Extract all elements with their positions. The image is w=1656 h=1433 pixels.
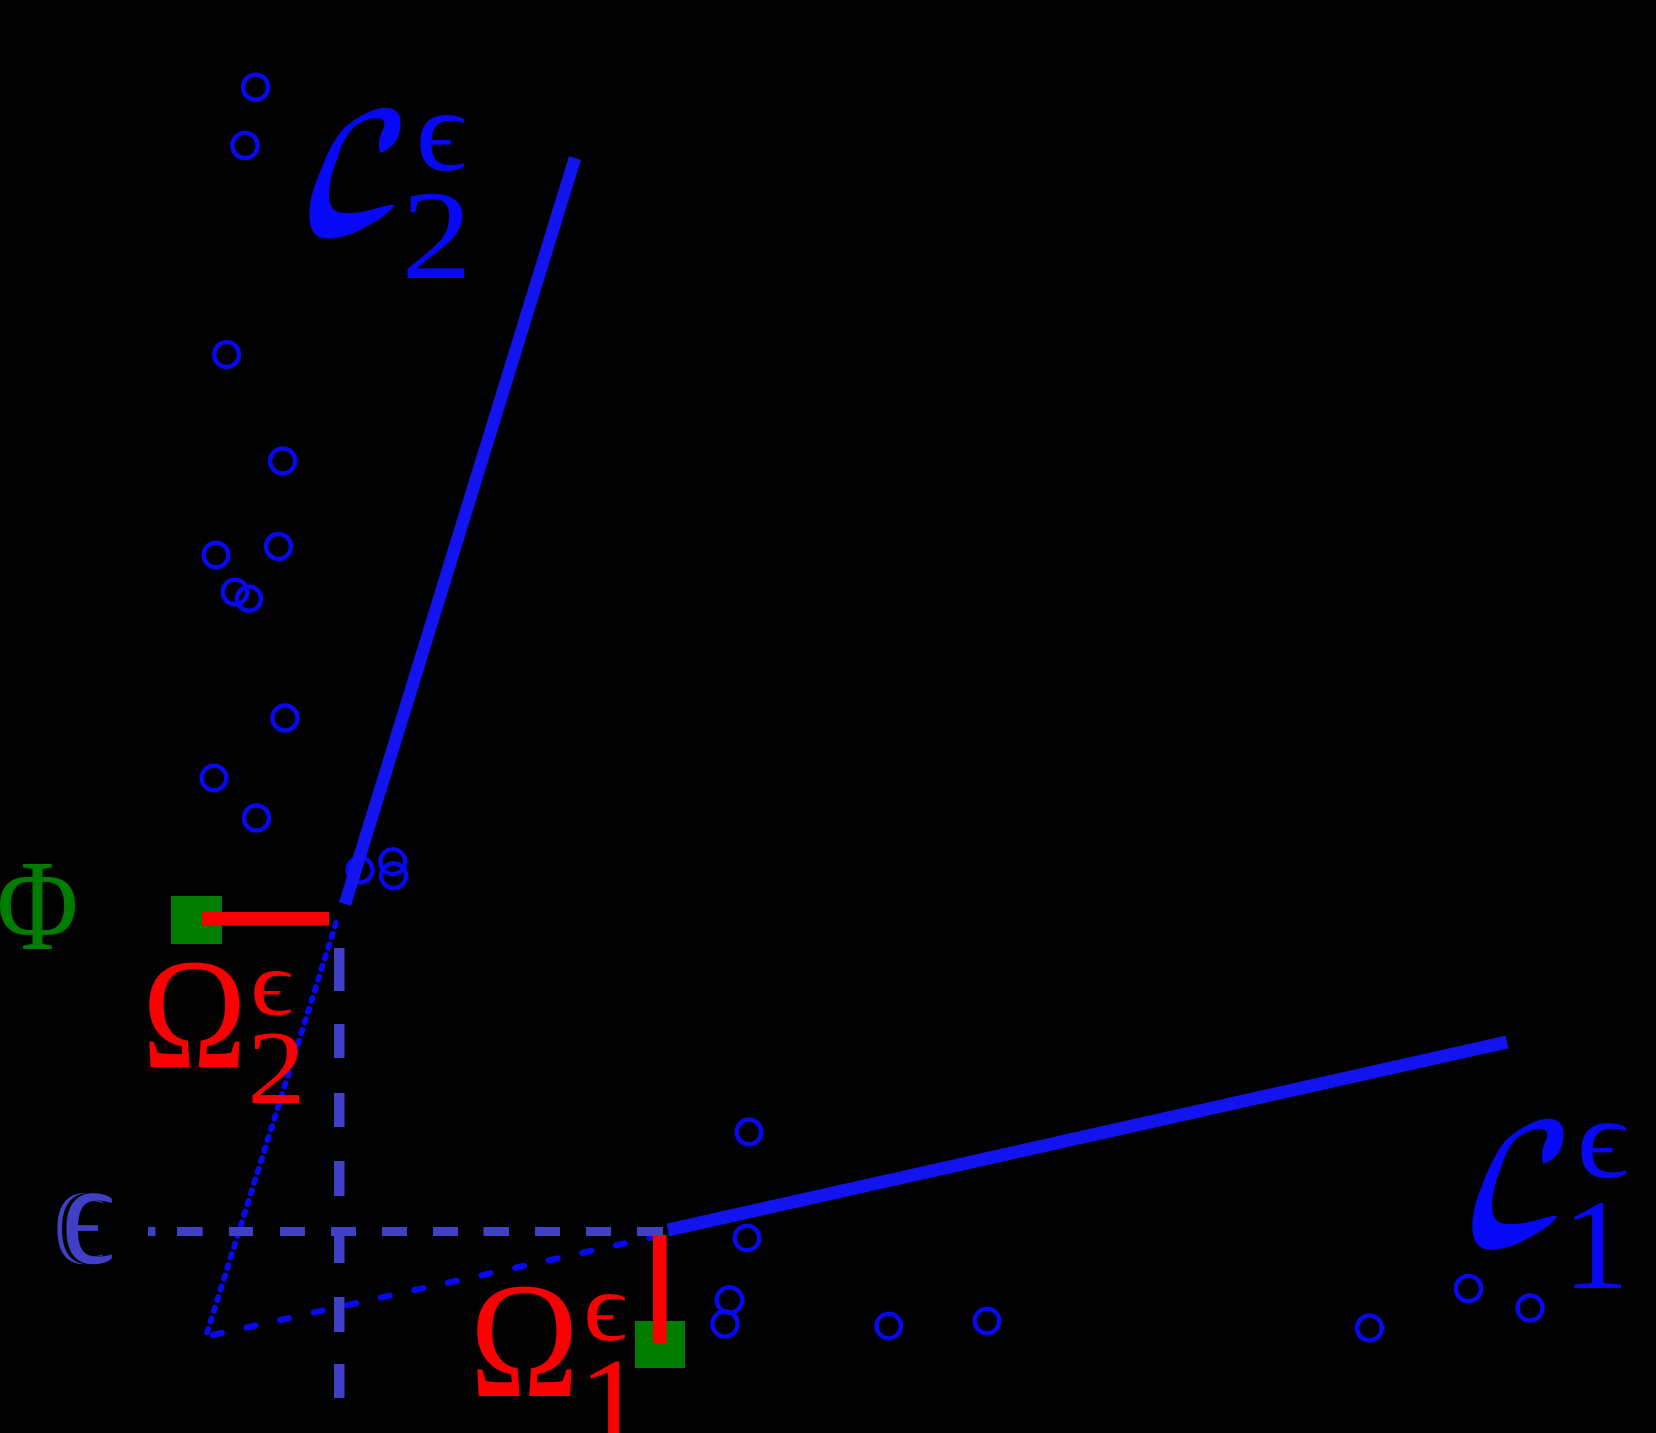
label epsilon (slate blue, double struck) (52, 1132, 114, 1296)
svg-text:ϵ: ϵ (61, 1132, 114, 1296)
circle pt22 (1456, 1276, 1481, 1301)
circle pt3 (214, 342, 239, 367)
label C2^eps (calligraphic C, blue) (309, 67, 471, 306)
svg-text:Ω: Ω (470, 1249, 580, 1432)
circle pt6 (266, 534, 291, 559)
circle pt7 (223, 580, 248, 605)
circle pt1 (243, 75, 268, 100)
vertical dashed line (epsilon offset) below C2 vertex (334, 948, 345, 1398)
svg-text:1: 1 (579, 1333, 645, 1433)
circle pt20 (975, 1309, 999, 1333)
circle pt21 (1357, 1316, 1382, 1341)
circle pt11 (244, 806, 269, 831)
red offset segment Omega1 (vertical) (653, 1235, 667, 1343)
svg-text:2: 2 (401, 165, 471, 306)
svg-text:2: 2 (247, 1010, 305, 1125)
dotted thin line from lower-left point up to C1 vertex (213, 1236, 658, 1335)
svg-text:1: 1 (1563, 1175, 1629, 1317)
circle pt19 (877, 1314, 901, 1338)
circle pt18 (712, 1311, 737, 1336)
dotted thin line from C2 vertex down to lower-left point (206, 923, 336, 1336)
circle pt23 (1518, 1296, 1543, 1321)
scattered data circles (blue) (202, 75, 1543, 1341)
circle pt16 (735, 1226, 759, 1250)
circle pt13 (380, 849, 405, 874)
label C1^eps (calligraphic C, blue) (1472, 1075, 1628, 1316)
label Omega1^eps (red) (470, 1249, 645, 1433)
circle pt4 (270, 449, 295, 474)
label Omega2^eps (red) (142, 928, 306, 1126)
circle pt15 (737, 1120, 762, 1145)
horizontal dashed line (epsilon level) to C1 vertex (148, 1227, 663, 1236)
circle pt17 (717, 1287, 742, 1312)
circle pt10 (202, 766, 227, 791)
green square marker Phi at C1 (635, 1321, 685, 1368)
solid blue line C1 (668, 1042, 1507, 1230)
circle pt2 (232, 133, 257, 158)
solid blue line C2 (345, 158, 575, 904)
svg-text:Φ: Φ (0, 834, 78, 978)
red offset segment Omega2 (horizontal) (202, 912, 329, 926)
circle pt9 (273, 706, 298, 731)
circle pt12 (348, 858, 373, 883)
circle pt5 (204, 543, 229, 568)
svg-text:Ω: Ω (142, 928, 247, 1102)
circle pt8 (237, 587, 261, 611)
green square marker Phi at C2 (171, 896, 222, 944)
circle pt14 (381, 863, 406, 888)
